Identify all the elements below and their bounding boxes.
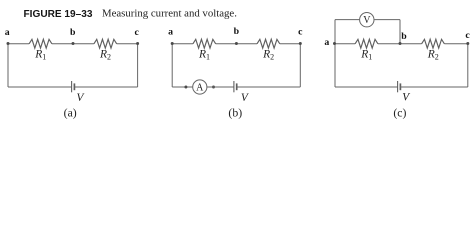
svg-text:a: a (168, 26, 173, 37)
wire: (c) battery to bottom right (400, 86, 467, 88)
node a (a) (7, 42, 10, 45)
resistor R2 (a) (94, 39, 117, 48)
svg-text:c: c (298, 26, 303, 37)
svg-text:(c): (c) (393, 106, 406, 120)
resistor R1 (a) (29, 39, 52, 48)
svg-text:R2: R2 (427, 49, 439, 62)
wire: (c) top, node b to R2 (400, 43, 422, 45)
battery V (a) short plate (73, 83, 75, 90)
svg-text:FIGURE 19–33: FIGURE 19–33 (24, 9, 93, 20)
battery V (b) long plate (233, 81, 235, 92)
wire: (b) top, node a to R1 (172, 43, 193, 45)
svg-text:R1: R1 (360, 49, 372, 62)
wire: (a) right rail (137, 44, 139, 87)
svg-text:(b): (b) (228, 106, 242, 120)
resistor R2 (b) (257, 39, 280, 48)
svg-text:c: c (465, 30, 470, 41)
svg-text:b: b (401, 31, 407, 42)
wire: (c) voltmeter branch left vertical (334, 20, 336, 44)
battery V (a) long plate (71, 81, 73, 92)
wire: (a) battery to bottom right (74, 86, 137, 88)
node a (c) (333, 42, 336, 45)
battery V (c) long plate (397, 81, 399, 92)
resistor R1 (c) (355, 39, 378, 48)
svg-text:R1: R1 (34, 49, 46, 62)
voltmeter V (c) (360, 13, 374, 27)
wire: (a) top, R2 to node c (117, 43, 138, 45)
svg-text:a: a (5, 27, 10, 38)
node b (b) (235, 42, 238, 45)
svg-text:V: V (363, 15, 371, 26)
wire: (c) top, node a to R1 (335, 43, 356, 45)
wire: (b) top, node b to R2 (236, 43, 257, 45)
node c (a) (136, 42, 139, 45)
wire: (a) left rail (7, 44, 9, 87)
node b (c) (399, 42, 402, 45)
wire: (b) battery to bottom right (237, 86, 301, 88)
wire: (c) left rail (334, 44, 336, 87)
node b (a) (72, 42, 75, 45)
wire: (b) top, R1 to node b (216, 43, 237, 45)
junction dot right of ammeter (b) (212, 86, 215, 89)
node c (c) (466, 42, 469, 45)
svg-text:V: V (241, 92, 249, 104)
svg-text:R2: R2 (99, 49, 111, 62)
wire: (c) right rail (467, 44, 469, 87)
node c (b) (299, 42, 302, 45)
node a (b) (171, 42, 174, 45)
svg-text:Measuring current and voltage.: Measuring current and voltage. (102, 8, 237, 20)
wire: (b) ammeter to battery (207, 86, 234, 88)
wire: (c) voltmeter branch top right (374, 19, 400, 21)
battery V (b) short plate (236, 83, 238, 90)
junction dot left of ammeter (b) (184, 86, 187, 89)
wire: (b) bottom left to ammeter (172, 86, 193, 88)
svg-text:b: b (70, 27, 76, 38)
svg-text:b: b (234, 26, 240, 37)
svg-text:(a): (a) (64, 106, 77, 120)
resistor R1 (b) (193, 39, 216, 48)
ammeter A (b) (193, 80, 207, 94)
resistor R2 (c) (422, 39, 445, 48)
wire: (a) top, node b to R2 (73, 43, 94, 45)
svg-text:V: V (77, 92, 85, 104)
wire: (c) bottom left to battery (335, 86, 398, 88)
figure title (24, 8, 237, 20)
svg-text:V: V (402, 91, 410, 103)
wire: (c) voltmeter branch top left (335, 19, 359, 21)
wire: (a) top, R1 to node b (52, 43, 73, 45)
wire: (b) right rail (299, 44, 301, 87)
wire: (a) bottom left to battery (8, 86, 72, 88)
wire: (a) top, node a to R1 (8, 43, 29, 45)
wire: (c) top, R1 to node b (378, 43, 400, 45)
wire: (c) top, R2 to node c (444, 43, 467, 45)
wire: (c) voltmeter branch right vertical (399, 20, 401, 44)
svg-text:R1: R1 (198, 49, 210, 62)
battery V (c) short plate (399, 83, 401, 90)
wire: (b) left rail (171, 44, 173, 87)
svg-text:R2: R2 (262, 49, 274, 62)
svg-text:c: c (135, 27, 140, 38)
wire: (b) top, R2 to node c (280, 43, 301, 45)
svg-text:A: A (196, 82, 204, 93)
svg-text:a: a (324, 37, 329, 48)
